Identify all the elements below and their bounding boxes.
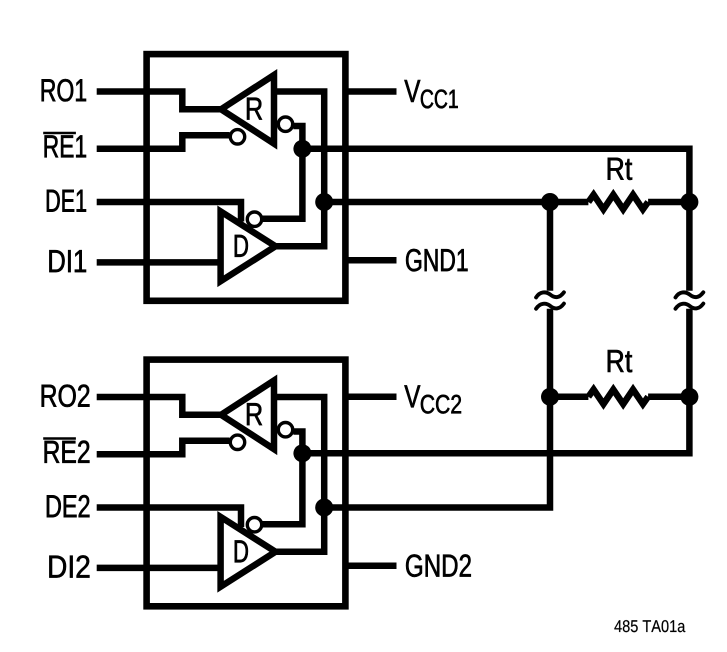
junction dot bottom-left Rt (541, 388, 559, 406)
transceiver U2 package outline (147, 360, 346, 607)
wire DI2 to driver input (97, 565, 221, 572)
junction dot top-right Rt (680, 193, 698, 211)
power stub VCC2 (345, 394, 396, 401)
wire DE1 to driver enable (97, 202, 241, 222)
wire RO2 with step to receiver output (97, 397, 224, 415)
wire DE2 to driver enable (97, 508, 241, 528)
wire A net: receiver input A, vertical, driver output A (274, 92, 324, 247)
pin label DE1 (47, 190, 86, 212)
driver inverting output bubble (B) (247, 212, 261, 226)
pin label RO2 (42, 385, 90, 408)
power label VCC1 (404, 80, 420, 102)
power label VCC2 (404, 385, 420, 407)
driver D (U2) (221, 517, 276, 587)
receiver R (U1) (221, 75, 274, 144)
wire RE1 with step to receiver enable bubble (97, 135, 230, 149)
receiver inverting input bubble (B) (278, 117, 292, 131)
value label Rt (top) (608, 158, 632, 180)
receiver inverting input bubble (B) (278, 423, 292, 437)
junction node A2 (315, 499, 333, 517)
pin label RE1 (active low) (45, 135, 86, 157)
pin label DI1 (49, 250, 86, 272)
pin label DE2 (47, 495, 90, 517)
receiver letter R (247, 98, 262, 120)
wire B net: receiver input B bubble to driver output B bubble (262, 432, 302, 525)
wire bus A1 to left vertical (324, 199, 550, 206)
wire RE2 with step to receiver enable bubble (97, 441, 230, 455)
figure number 485 TA01a (614, 620, 685, 632)
pin label DI2 (49, 555, 89, 577)
ground stub GND1 (345, 257, 396, 264)
value label Rt (bottom) (608, 350, 632, 372)
receiver enable bubble (RE2) (230, 435, 244, 449)
junction node B1 (293, 140, 311, 158)
driver letter D (235, 235, 248, 257)
wire bus B1 with corner to right vertical (upper) (302, 149, 689, 291)
wire DI1 to driver input (97, 259, 221, 266)
ground label GND1 (406, 249, 467, 272)
junction dot bottom-right Rt (680, 388, 698, 406)
resistor Rt (bottom termination) (550, 390, 689, 405)
wire RO1 with step to receiver output (97, 92, 224, 110)
resistor Rt (top termination) (550, 195, 689, 210)
wire A net: receiver input A, vertical, driver output A (274, 397, 324, 552)
wire bus B2 with corner to right vertical (lower) (302, 309, 689, 454)
junction dot top-left Rt (541, 193, 559, 211)
cable break symbol (left line) (536, 292, 564, 308)
pin label RE2 (active low) (45, 441, 90, 463)
wire left bus vertical (upper) (547, 202, 554, 291)
junction node B2 (293, 444, 311, 462)
transceiver U1 package outline (147, 54, 346, 301)
receiver letter R (247, 403, 262, 425)
receiver R (U2) (221, 381, 274, 450)
driver D (U1) (221, 211, 276, 281)
cable break symbol (right line) (676, 292, 704, 308)
wire bus A2 with corner to left vertical (lower) (324, 309, 550, 508)
ground label GND2 (406, 554, 471, 577)
ground stub GND2 (345, 562, 396, 569)
overline on RE2 (43, 437, 76, 440)
receiver enable bubble (RE1) (230, 130, 244, 144)
power stub VCC1 (345, 88, 396, 95)
overline on RE1 (43, 132, 76, 135)
pin label RO1 (42, 79, 86, 102)
junction node A1 (315, 193, 333, 211)
driver inverting output bubble (B) (247, 518, 261, 532)
wire B net: receiver input B bubble to driver output B bubble (262, 126, 302, 219)
driver letter D (235, 540, 248, 562)
